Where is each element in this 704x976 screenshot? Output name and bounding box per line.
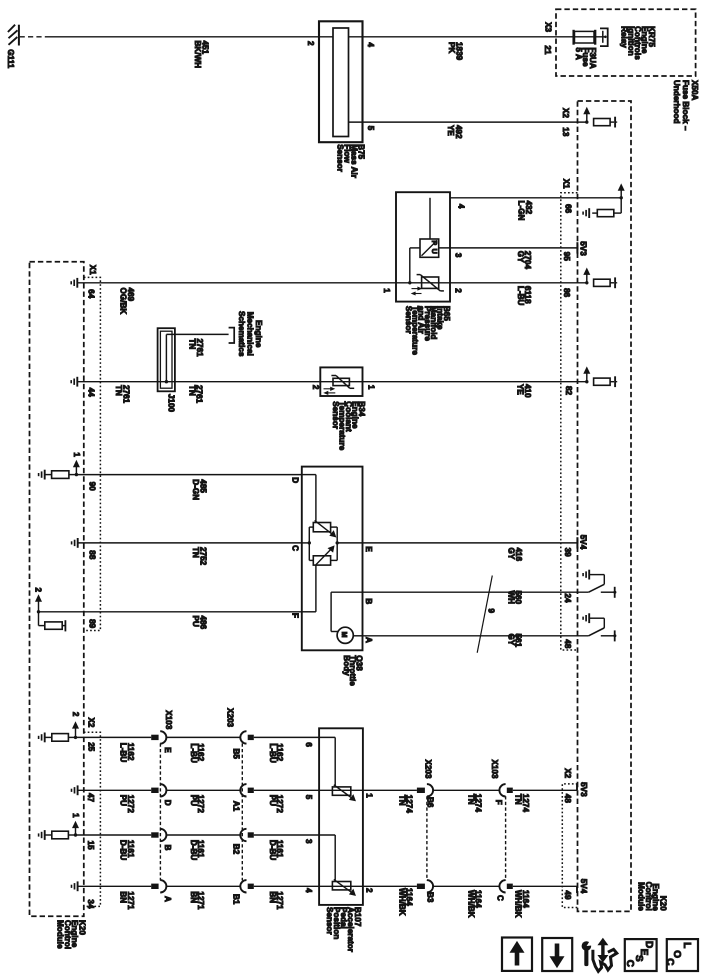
wire 1164 WH/BK seg3 [513,885,577,887]
svg-text:2: 2 [34,588,43,593]
note slash 9 [477,576,492,653]
svg-text:2: 2 [311,385,320,390]
svg-text:B5: B5 [232,749,241,760]
svg-text:L-BU: L-BU [119,743,128,763]
ecm terminal pin 95 [576,242,578,253]
svg-text:F: F [494,800,503,805]
svg-text:Schematics: Schematics [237,311,246,357]
ground pin 47 (ecm internal) [77,785,79,795]
svg-text:GY: GY [507,548,516,560]
svg-text:WH/BK: WH/BK [514,890,523,918]
svg-text:47: 47 [86,793,95,803]
ecm input pin 82 (arrow, resistor, terminal) [585,380,588,383]
ecm input pin 86 (arrow, resistor, terminal) [585,281,588,284]
svg-text:90: 90 [88,482,97,492]
throttle motor M [337,627,353,643]
svg-text:X1: X1 [88,265,97,275]
wire 451 BK/WH (dashed at ground) [20,36,49,38]
svg-text:YE: YE [516,384,525,395]
svg-text:5 A: 5 A [574,48,583,61]
svg-text:49: 49 [563,890,572,900]
svg-text:D-BU: D-BU [268,840,277,861]
svg-text:OG/BK: OG/BK [119,288,128,315]
svg-text:13: 13 [561,127,570,137]
relay KR75 bracket [600,28,608,46]
svg-text:Module: Module [56,920,65,949]
svg-text:D-BU: D-BU [119,840,128,861]
icon LOC box [667,939,698,971]
svg-text:5V3: 5V3 [579,782,588,797]
icon down-arrow box [542,938,572,971]
wire 560 WH [363,591,589,593]
svg-text:D: D [163,800,172,806]
svg-text:2: 2 [454,288,463,293]
svg-text:B3: B3 [426,892,435,903]
wire 2761 TN [78,381,320,383]
connector X103 pin B [151,832,158,837]
ground pin 88 (ecm internal) [77,538,79,548]
svg-text:WH: WH [506,591,515,605]
svg-text:Sensor: Sensor [335,144,344,173]
wire B107 pin3 internal [319,834,335,836]
off-page bracket (engine mechanical) [229,328,235,343]
svg-text:E: E [163,747,172,753]
svg-text:D: D [291,477,300,483]
wire Q38 E internal [336,541,339,544]
ecm output pin 89 (arrow 2, resistor, terminal) [37,610,40,613]
wire 1161 D-BU seg3 [254,834,319,836]
svg-text:PK: PK [447,42,456,53]
splice pack J100 outer [158,328,175,391]
svg-text:BN: BN [119,891,128,903]
wire 486 PU [39,611,302,613]
sensor B65 box [396,192,450,301]
svg-text:34: 34 [86,899,95,909]
relay KR75 terminal [602,31,604,43]
wire 492 YE [349,121,587,123]
wire 1162 L-BU seg3 [254,736,319,738]
svg-text:TN: TN [467,794,476,805]
svg-text:YE: YE [446,125,455,136]
sensor B107 lower potentiometer [332,882,350,890]
ecm terminal pin 39 [576,537,578,548]
svg-text:Fuse Block –: Fuse Block – [681,80,690,131]
wire 1271 BN seg1 [78,885,151,887]
wire 1274 TN seg3 [513,789,577,791]
icon DESC box [625,939,657,971]
svg-text:C: C [291,545,300,551]
ground pin 64 (ecm internal) [76,278,78,288]
svg-text:X2: X2 [561,108,570,118]
sensor B65 thermistor [422,277,439,288]
svg-text:X103: X103 [164,710,173,730]
svg-text:TN: TN [187,385,196,396]
wire 1272 PU seg1 [78,789,151,791]
wire 1161 D-BU seg1 [76,834,152,836]
wire B107 pin4 internal [319,885,363,887]
sensor B75 inner element [333,28,349,137]
svg-text:Underhood: Underhood [672,80,681,124]
connector X203 pin B5 [240,731,246,743]
sensor B107 box [319,728,363,905]
wire 1274 TN seg1 [363,789,417,791]
wire 416 GY [363,542,577,544]
svg-text:21: 21 [543,45,552,55]
svg-text:Relay: Relay [620,26,629,48]
svg-text:48: 48 [563,794,572,804]
wire 6118 L-BU [450,282,587,284]
sensor B75 outer box [319,21,363,142]
svg-text:89: 89 [88,619,97,629]
svg-text:P: P [430,240,439,245]
throttle TPS lower potentiometer [313,556,330,565]
svg-text:X103: X103 [490,760,499,780]
connector X2 dotted bracket (bottom right) [562,784,577,908]
svg-text:L-BU: L-BU [268,743,277,763]
svg-text:5V3: 5V3 [578,241,587,256]
connector X103 tie line (left) [159,743,161,880]
svg-text:Module: Module [637,882,646,911]
svg-text:4: 4 [366,42,375,47]
ecm input pin 66 (arrow, resistor to ground) [620,196,623,199]
svg-text:PU: PU [268,795,277,806]
ecm output pin 15 (ground, resistor, arrow 1) [44,830,46,840]
ecm output pin 25 (ground, resistor, arrow 2) [44,733,46,743]
svg-text:1: 1 [367,385,376,390]
svg-text:WH/BK: WH/BK [467,890,476,918]
wire 485 D-GN [76,474,301,476]
svg-text:F: F [291,613,300,618]
ecm switch pin 48 (to ground) [588,613,590,623]
wire 1839 PK [349,36,606,38]
wire B107 pin6 internal [319,736,335,738]
throttle TPS upper potentiometer [313,523,330,532]
svg-text:5: 5 [366,126,375,131]
svg-text:WH/BK: WH/BK [398,888,407,916]
svg-text:D-GN: D-GN [191,479,200,500]
svg-text:C: C [624,960,635,967]
sensor B34 box [320,367,362,396]
svg-text:Body: Body [342,655,351,676]
svg-text:C: C [664,958,675,965]
svg-text:B: B [364,598,373,604]
svg-text:C: C [496,895,505,901]
svg-text:48: 48 [563,639,572,649]
connector X103 pin F [499,784,505,796]
svg-text:M: M [340,632,347,638]
svg-text:GY: GY [506,634,515,646]
svg-text:1: 1 [364,793,373,798]
wire Q38 F internal [302,611,316,613]
ecm terminal pin 49 (5V4) [576,886,578,893]
wire 561 GY [363,635,589,637]
connector X203 pin B3 [417,884,425,889]
svg-text:X2: X2 [563,768,572,778]
module K20 dashed box (left) [30,262,84,917]
svg-text:9: 9 [486,609,495,614]
svg-text:1: 1 [72,452,81,457]
wire B107 pin5 internal [319,789,363,791]
svg-text:X2: X2 [87,718,96,728]
svg-text:86: 86 [562,288,571,298]
icon service tools [582,941,592,951]
svg-text:4: 4 [304,888,313,893]
svg-text:O: O [671,950,682,958]
svg-text:BK/WH: BK/WH [193,41,202,69]
fuse block X50A dashed box [556,9,696,76]
throttle Q38 box [302,467,363,651]
svg-text:95: 95 [562,252,571,262]
connector X203 tie line (right) [426,796,428,880]
connector X103 pin C [499,880,505,892]
wire 469 OG/BK [78,282,396,284]
svg-text:66: 66 [564,204,573,214]
svg-text:J100: J100 [167,394,176,413]
wire 1274 TN seg2 [433,789,500,791]
wire Q38 D internal [302,474,316,476]
wire 1161 D-BU seg2 [166,834,241,836]
icon up-arrow box [502,938,532,971]
svg-text:2: 2 [71,712,80,717]
svg-text:D: D [643,941,654,948]
throttle TPS rails [309,526,313,528]
ecm output pin 90 (ground, resistor, arrow 1) [44,470,46,480]
svg-text:PU: PU [119,795,128,806]
ecm input pin 13 (arrow, resistor, terminal) [585,120,588,123]
svg-text:E: E [364,546,373,552]
svg-text:A1: A1 [232,801,241,812]
connector X203 pin B2 [240,829,246,841]
connector X203 pin A1 [240,784,246,796]
wire B34 internal [320,381,362,383]
svg-text:25: 25 [87,742,96,752]
wire B65 pin4 internal [429,198,431,239]
svg-text:Sensor: Sensor [404,306,413,335]
sensor B107 upper potentiometer [332,787,350,795]
svg-text:44: 44 [86,388,95,398]
svg-text:4: 4 [457,204,466,209]
ecm switch pin 24 (to ground) [588,570,590,580]
wire 451 BK/WH [49,36,333,38]
svg-text:A: A [364,637,373,643]
wire 1164 WH/BK seg2 [433,885,500,887]
svg-text:B1: B1 [232,894,241,905]
wire Q38 A internal [353,635,362,637]
svg-text:5: 5 [304,795,313,800]
connector X203 pin B6 [417,788,425,793]
svg-text:3: 3 [454,253,463,258]
svg-text:X203: X203 [423,760,432,780]
svg-text:Sensor: Sensor [325,907,334,936]
svg-text:GY: GY [516,251,525,263]
svg-text:6: 6 [304,742,313,747]
svg-text:1: 1 [71,813,80,818]
wire 1164 WH/BK seg1 [363,885,417,887]
svg-text:L-BU: L-BU [189,743,198,763]
splice pack J100 inner [160,331,172,388]
ecm terminal pin 48 (5V3) [576,784,578,791]
svg-text:TN: TN [191,547,200,558]
svg-text:82: 82 [564,386,573,396]
wire B65 P/U left branch [410,247,420,249]
svg-text:2: 2 [306,41,315,46]
wire 1271 BN seg2 [166,885,241,887]
fuse F3UA end caps [572,30,574,45]
svg-text:TN: TN [514,794,523,805]
svg-text:PU: PU [191,616,200,627]
wire 2752 TN [78,542,301,544]
wire B65 internal (pin1-pin2) [396,282,450,284]
connector X1 dotted bracket (left) [84,277,101,630]
svg-text:X203: X203 [225,708,234,728]
svg-text:BN: BN [268,891,277,903]
svg-text:64: 64 [86,289,95,299]
sensor B34 thermistor [333,378,349,385]
svg-text:L: L [681,942,692,948]
svg-text:U: U [430,249,439,254]
svg-text:5V4: 5V4 [579,535,588,550]
connector X203 tie line (left) [241,743,243,880]
wire 1162 L-BU seg2 [166,736,241,738]
wire Q38 C internal [302,542,310,544]
connector X103 pin E [151,735,158,740]
svg-text:A: A [163,896,172,902]
svg-text:24: 24 [563,593,572,603]
wire 432 L-GN [450,197,621,199]
svg-text:L-BU: L-BU [516,286,525,306]
svg-text:X50A: X50A [690,80,699,101]
svg-text:B: B [163,845,172,851]
connector X103 tie line (right) [505,796,507,880]
svg-text:BN: BN [189,891,198,903]
wire 1272 PU seg3 [254,789,319,791]
svg-text:5V4: 5V4 [579,879,588,894]
svg-text:3: 3 [304,839,313,844]
svg-text:G111: G111 [6,49,15,69]
svg-text:39: 39 [563,548,572,558]
module K20 dashed box (right) [578,101,632,911]
svg-text:D-BU: D-BU [189,840,198,861]
wire 2704 GY [439,247,577,249]
connector X1 dotted bracket (right) [561,193,578,650]
connector X103 pin A [151,884,158,889]
svg-text:L-GN: L-GN [517,201,526,221]
svg-text:1: 1 [382,288,391,293]
ground G111 (chassis) [18,25,20,46]
sensor B65 pressure element P/U [420,239,439,257]
svg-text:88: 88 [88,550,97,560]
connector X103 pin D [151,788,158,793]
wire Q38 B internal [331,591,362,593]
wire 1271 BN seg3 [254,885,319,887]
wire 1162 L-BU seg1 [76,736,152,738]
ground pin 34 (ecm internal) [77,881,79,891]
svg-text:B2: B2 [232,844,241,855]
svg-text:TN: TN [114,385,123,396]
svg-text:PU: PU [189,795,198,806]
connector X2 dotted bracket (left) [84,732,101,906]
svg-text:X1: X1 [562,179,571,189]
fuse F3UA body [575,31,595,43]
wire 410 YE [363,381,587,383]
svg-text:15: 15 [86,841,95,851]
svg-text:Sensor: Sensor [331,401,340,430]
svg-text:X3: X3 [543,22,552,32]
wire 1272 PU seg2 [166,789,241,791]
ground pin 44 (ecm internal) [76,377,78,387]
connector X203 pin B1 [240,880,246,892]
wire 2761 TN branch [165,380,168,383]
svg-text:2: 2 [364,888,373,893]
svg-text:TN: TN [398,795,407,806]
svg-text:TN: TN [188,339,197,350]
